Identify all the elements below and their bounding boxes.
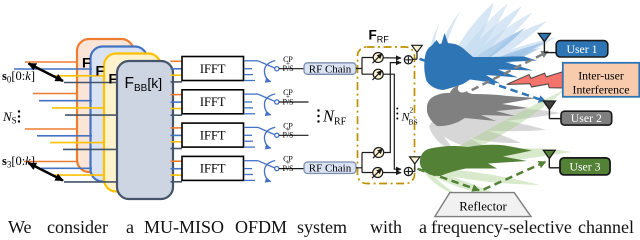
wire group s1: orange xyxy=(33,93,78,95)
svg-text:IFFT: IFFT xyxy=(200,162,226,176)
adder 1 xyxy=(404,56,412,64)
wires F_BB to IFFT2 xyxy=(171,95,183,116)
wire group s2: orange xyxy=(25,128,78,130)
svg-text:Interference: Interference xyxy=(573,82,630,96)
beam blue light petal wide xyxy=(452,12,533,79)
beam blue mid petal 2 xyxy=(455,28,525,75)
precoder block F_BB subcarrier 2 (blue) xyxy=(91,47,148,182)
wire PS1 to adder1 xyxy=(383,57,401,59)
wire node to RF chain 1 xyxy=(279,68,304,70)
RF Chain block 2 xyxy=(304,162,356,175)
caption text xyxy=(8,217,638,219)
user 2 antenna xyxy=(543,101,561,119)
beam cluster blue: light petals xyxy=(428,2,556,80)
svg-text:BS: BS xyxy=(409,118,418,127)
svg-text:FRF: FRF xyxy=(369,28,390,45)
beam main lobe blue (solid wing) xyxy=(424,33,537,90)
arrow span s0 xyxy=(29,64,64,82)
svg-text:RF Chain: RF Chain xyxy=(309,163,352,175)
wire RF1 split xyxy=(356,58,373,75)
beam blue light petal extra xyxy=(447,3,508,79)
svg-text:P/S: P/S xyxy=(282,97,293,106)
wire group s3: dark xyxy=(64,181,118,183)
beam blue mid petal xyxy=(452,48,540,79)
wire PS3 to adder1 (vertical bus) xyxy=(384,63,401,153)
inter-user interference box xyxy=(563,63,640,97)
phase shifter PS4 xyxy=(372,168,383,179)
beam main lobe green (solid wing) xyxy=(420,145,532,176)
phase shifter PS3 xyxy=(373,148,384,159)
adder 2 xyxy=(404,167,412,175)
beam cluster gray: light petals xyxy=(429,109,561,152)
svg-text:s0[0:k]: s0[0:k] xyxy=(2,69,35,85)
svg-text:F: F xyxy=(96,63,105,79)
wire group s3: blue xyxy=(41,167,92,169)
vertical dots N_BS xyxy=(396,108,398,120)
label CP+P/S row 1 xyxy=(282,55,293,73)
label CP+P/S row 3 xyxy=(282,121,293,139)
svg-text:User 1: User 1 xyxy=(566,42,597,56)
user 1 antenna xyxy=(538,33,556,52)
wire PS2 to adder2 (vertical bus) xyxy=(383,74,401,169)
svg-text:P/S: P/S xyxy=(282,64,293,73)
label CP+P/S row 4 xyxy=(282,155,293,173)
IFFT block 1 xyxy=(182,57,244,81)
interference lightning bolt xyxy=(507,72,563,88)
CP P/S converter row 3 xyxy=(244,127,279,148)
wire group s1: blue xyxy=(39,100,92,102)
svg-text:IFFT: IFFT xyxy=(200,128,226,142)
svg-text:IFFT: IFFT xyxy=(200,62,226,76)
wire group s0: blue xyxy=(14,68,92,70)
CP P/S converter row 2 xyxy=(244,94,279,115)
gray dashed link to user 1 xyxy=(461,52,548,96)
BS antenna 1 xyxy=(412,45,422,59)
wire PS4 to adder2 xyxy=(383,172,401,174)
user 3 box xyxy=(560,158,610,175)
svg-text:User 2: User 2 xyxy=(571,111,602,125)
wire group s1: dark xyxy=(65,114,118,116)
svg-text:s3[0:k]: s3[0:k] xyxy=(2,154,35,170)
wire group s0: orange xyxy=(25,61,78,63)
phase shifter PS2 xyxy=(373,69,384,80)
wire group s0: dark xyxy=(64,82,118,84)
svg-text:P/S: P/S xyxy=(282,164,293,173)
wires F_BB to IFFT3 xyxy=(171,128,183,149)
svg-text:IFFT: IFFT xyxy=(200,95,226,109)
svg-text:Reflector: Reflector xyxy=(459,200,507,214)
vertical dots N_S xyxy=(18,110,20,122)
CP P/S converter row 1 xyxy=(244,61,279,82)
green dashed link to reflector xyxy=(418,169,480,191)
precoder block F_BB subcarrier 1 (orange) xyxy=(77,39,134,172)
wire RF2 split xyxy=(356,153,373,173)
BS antenna 2 xyxy=(410,157,420,172)
svg-text:RF Chain: RF Chain xyxy=(309,63,352,75)
svg-text:Inter-user: Inter-user xyxy=(578,68,624,82)
label CP+P/S row 2 xyxy=(282,88,293,106)
precoder block F_BB subcarrier 3 (yellow) xyxy=(104,54,161,192)
beam main lobe gray (solid wing) xyxy=(427,86,536,127)
svg-text:F: F xyxy=(82,55,91,71)
wire group s2: yellow xyxy=(50,142,105,144)
wire stub row 2 xyxy=(279,101,309,103)
analog beamformer F_RF dashed box xyxy=(358,47,415,184)
wire group s3: orange xyxy=(24,161,78,163)
svg-text:NS: NS xyxy=(2,109,17,126)
IFFT block 4 xyxy=(182,156,244,180)
precoder block F_BB[k] (front, gray) xyxy=(117,61,173,199)
wires F_BB to IFFT1 xyxy=(171,61,183,82)
reflector xyxy=(435,193,531,217)
phase shifter PS1 xyxy=(373,53,384,64)
user 2 box xyxy=(561,111,612,125)
wire group s0: yellow xyxy=(51,75,105,77)
user 1 box xyxy=(556,41,608,57)
vertical dots N_RF xyxy=(317,109,319,122)
IFFT block 3 xyxy=(182,123,244,147)
blue dashed link to user 2 xyxy=(420,59,546,102)
wire node to RF chain 4 xyxy=(279,168,304,170)
wire stub row 3 xyxy=(279,134,309,136)
IFFT block 2 xyxy=(182,90,244,114)
svg-text:P/S: P/S xyxy=(282,131,293,140)
arrow span s3 xyxy=(29,163,64,181)
wire group s2: dark xyxy=(63,148,118,150)
svg-text:NRF: NRF xyxy=(322,107,347,128)
CP P/S converter row 4 xyxy=(244,161,279,182)
wire group s2: blue xyxy=(37,135,92,137)
wire group s3: yellow xyxy=(54,174,105,176)
svg-text:2: 2 xyxy=(410,106,414,115)
beam cluster green: light petals xyxy=(424,89,572,198)
svg-text:User 3: User 3 xyxy=(569,160,600,174)
wire group s1: yellow xyxy=(52,107,105,109)
beam blue mid petal 3 xyxy=(460,42,545,77)
user 3 antenna xyxy=(543,150,560,168)
green dashed link reflector to user 3 xyxy=(484,162,546,190)
RF Chain block 1 xyxy=(304,63,356,76)
wires F_BB to IFFT4 xyxy=(171,161,183,182)
